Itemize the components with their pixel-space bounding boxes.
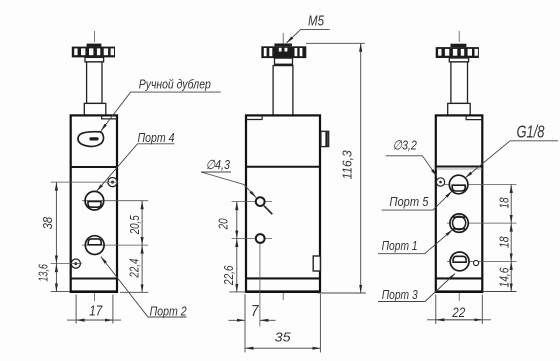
dimension 116,3 (overall height) [306,43,366,293]
svg-text:14,6: 14,6 [497,267,512,288]
mounting hole 2 side view [256,234,265,243]
hole axis diagonal mark [264,206,272,215]
latch detail side view [313,256,320,271]
label Ручной дублер (manual override) [101,77,221,131]
override slot [89,137,98,140]
svg-text:М5: М5 [308,12,325,29]
centerline front view vertical axis [93,31,95,301]
stem right view [451,62,468,104]
thin line under split [436,168,483,170]
stem front view [87,62,102,104]
small hole right of port 3 [474,260,479,265]
svg-text:38: 38 [40,216,55,229]
hole 1 centerline side view [232,201,272,203]
port 2 circle [85,236,104,255]
svg-text:G1/8: G1/8 [517,122,545,142]
svg-text:Порт 4: Порт 4 [138,130,175,145]
knob slots side view [264,48,303,56]
stem boss front view [84,103,106,115]
dimension 22,4 [120,245,148,292]
dimension 20,5 [127,201,142,245]
stem boss right view [448,103,471,115]
mounting hole 1 side view [256,197,265,206]
port 1 inner thread barrel [453,216,466,229]
svg-text:20,5: 20,5 [127,215,142,235]
port 2 centerline [82,244,148,246]
svg-text:∅4,3: ∅4,3 [206,157,231,172]
centerline side view vertical axis [282,33,284,300]
port 5 inner thread cup [452,185,465,191]
dimension 22 (right view) [427,295,491,325]
svg-text:7: 7 [251,303,259,320]
label Порт 3 [378,274,455,303]
screw hole bottom-left [71,259,80,268]
body split line right view [436,166,483,168]
dimension 38 [40,182,56,264]
small hole 3.2 [436,178,444,186]
screw holes centerline top [51,181,119,183]
svg-text:116,3: 116,3 [340,150,355,180]
label Порт 1 [378,230,453,254]
dimension 18 bottom (right view) [497,223,512,261]
dimension 35 (side view) [245,294,320,352]
knob cap right view [451,44,467,47]
svg-text:Ручной дублер: Ручной дублер [139,77,211,92]
knob nut dark base [275,64,293,66]
label Порт 4 [97,130,175,191]
svg-text:Порт 5: Порт 5 [389,194,429,209]
valve body front view [71,115,117,292]
svg-text:22,4: 22,4 [127,259,142,279]
knob slots right view [438,49,478,56]
svg-text:35: 35 [275,330,292,345]
body split line front view [71,166,117,168]
svg-text:Порт 2: Порт 2 [150,303,188,318]
dimension 13,6 [36,264,71,292]
port 4 circle [85,191,104,210]
knurled knob front view [72,47,115,58]
port 1 circle [450,214,468,232]
dimension 17 [67,295,121,324]
base plate line side view [246,277,320,279]
label Порт 2 [101,257,187,319]
knob collar front view [85,57,104,62]
body top-left notch side view [246,115,262,119]
svg-text:22,6: 22,6 [221,265,236,286]
screw holes centerline bottom [51,263,83,265]
svg-text:∅3,2: ∅3,2 [393,138,418,153]
base plate line right view [436,277,483,279]
knob nut side view [275,58,293,66]
label M5 [287,12,330,43]
base plate line front view [71,277,117,279]
port 5 circle [449,175,468,194]
label Ø3,2 [386,138,437,177]
label Порт 5 [382,191,452,210]
svg-text:13,6: 13,6 [36,264,51,282]
port 3 circle [450,252,469,271]
port 4 inner thread cup [88,201,101,207]
connector tab side view [321,131,329,146]
port 3 centerline [447,260,517,262]
svg-text:Порт 3: Порт 3 [382,287,419,302]
connector tab inner bar [325,132,327,146]
hole column extension line [259,244,261,327]
dimension 20 (side view) [216,202,237,239]
M5 screw cap side view [274,44,292,47]
dimension 22,6 (side view) [221,239,246,292]
body split line side view [246,166,320,168]
svg-text:Порт 1: Порт 1 [382,238,418,253]
svg-text:22: 22 [451,304,465,320]
knurled knob right view [436,47,479,58]
valve body side view [246,115,320,292]
svg-text:17: 17 [89,303,103,320]
centerline right view vertical axis [458,31,460,301]
screw hole top-right [108,178,117,187]
hole 2 centerline side view [232,238,272,240]
svg-text:18: 18 [497,236,512,248]
manual override oval [78,132,104,147]
body top-right notch right view [466,115,482,119]
knob slots front view [74,48,114,55]
valve body right view [436,115,483,292]
svg-text:18: 18 [497,197,512,209]
dimension 7 (side view) [229,294,276,327]
svg-text:20: 20 [216,218,231,230]
label G1/8 [465,122,558,178]
knurled knob side view [261,46,306,58]
label Ø4,3 [201,157,256,198]
dimension 18 top (right view) [497,185,512,224]
body top-right notch front view [102,115,117,119]
knob cap front view [87,44,102,47]
port 3 inner thread cup [453,256,466,262]
port 2 inner thread cup [88,239,101,245]
port 1 centerline [447,222,517,224]
knob collar right view [449,58,468,62]
port 5 centerline [444,184,517,186]
stem side view [273,66,293,116]
dimension 14,6 (right view) [482,261,516,291]
port 4 centerline [82,200,148,202]
